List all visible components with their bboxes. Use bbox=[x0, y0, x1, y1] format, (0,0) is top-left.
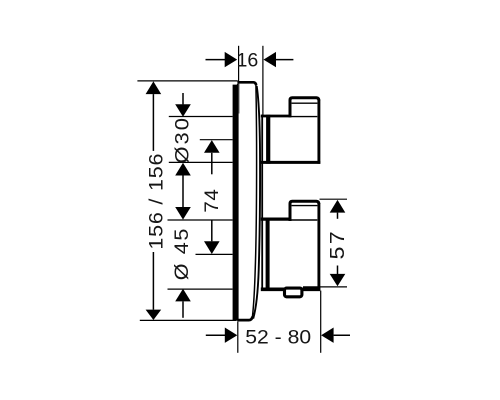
bottom handle grip outline bbox=[290, 201, 319, 221]
dim O30 top line bbox=[169, 116, 233, 118]
top handle grip outline bbox=[290, 98, 319, 118]
dim 52-80 right extension line bbox=[320, 291, 322, 353]
svg-text:Ø 45: Ø 45 bbox=[171, 227, 193, 280]
dim 74 lower arrow pointing down bbox=[211, 220, 213, 242]
bottom handle body top edge thin part under grip bbox=[291, 219, 318, 221]
svg-text:156 / 156: 156 / 156 bbox=[145, 153, 167, 250]
dim 74 top centerline bbox=[200, 139, 233, 141]
svg-text:74: 74 bbox=[201, 189, 222, 213]
bottom handle front right edge bbox=[317, 203, 320, 291]
wall plate back thick edge bbox=[233, 82, 239, 321]
dim O45 lower arrow pointing up bbox=[175, 289, 191, 302]
wall plate front face inner curve bbox=[252, 84, 256, 318]
dim O30 lower arrow pointing up bbox=[175, 163, 191, 176]
svg-text:57: 57 bbox=[326, 229, 349, 260]
dim 16 right extension line bbox=[262, 46, 264, 115]
dim 156/156 bottom arrow bbox=[146, 310, 162, 320]
dim 74 upper arrow pointing up bbox=[204, 140, 220, 153]
dim 16 left arrow bbox=[206, 59, 226, 61]
dim 156/156 top arrow bbox=[146, 81, 162, 94]
top handle front right edge bbox=[317, 100, 320, 164]
dim 74 bottom centerline bbox=[196, 253, 233, 255]
dim 57 bottom extension line bbox=[303, 286, 347, 288]
dim 16 right arrow bbox=[264, 52, 277, 67]
dim O45 bottom line bbox=[168, 288, 233, 290]
top handle grip inner line bbox=[292, 102, 318, 104]
wall plate outline top and bottom edges bbox=[237, 82, 256, 320]
dim 52-80 left extension line bbox=[237, 322, 239, 353]
dim O30 bottom line bbox=[169, 161, 233, 163]
top handle body bottom edge bbox=[261, 161, 321, 164]
dim 156/156 top extension line bbox=[137, 80, 237, 82]
dim 16 left extension continuation over plate bbox=[238, 84, 240, 114]
dim 57 lower arrow pointing down bbox=[337, 266, 339, 275]
bottom handle back thick edge bbox=[266, 219, 270, 290]
top handle body top edge bbox=[261, 115, 291, 118]
dim 52-80 right arrow bbox=[321, 328, 334, 343]
svg-text:52 - 80: 52 - 80 bbox=[245, 327, 311, 348]
bottom handle body bottom edge bbox=[261, 287, 321, 291]
bottom handle grip inner line bbox=[292, 205, 318, 207]
dim O30 upper arrow pointing down bbox=[182, 93, 184, 104]
dim 57 upper arrow pointing up bbox=[330, 200, 346, 213]
dim O45 top line bbox=[168, 219, 233, 221]
svg-text:16: 16 bbox=[237, 50, 259, 72]
dim 57 top extension line bbox=[320, 198, 348, 200]
top handle body top edge thin part under grip bbox=[291, 116, 318, 118]
dim 52-80 left arrow bbox=[206, 334, 226, 336]
valve sleeve front edge line bbox=[261, 115, 263, 289]
bottom handle safety button notch bbox=[285, 288, 302, 297]
dim O45 upper arrow pointing down bbox=[175, 207, 191, 220]
bottom handle body top edge bbox=[261, 218, 291, 221]
wall plate front face outer curve bbox=[253, 86, 260, 319]
top handle back thick edge bbox=[266, 115, 270, 164]
svg-text:Ø30: Ø30 bbox=[171, 116, 193, 164]
dim 16 left extension line bbox=[238, 46, 240, 81]
dim 156/156 bottom extension line bbox=[140, 319, 236, 321]
